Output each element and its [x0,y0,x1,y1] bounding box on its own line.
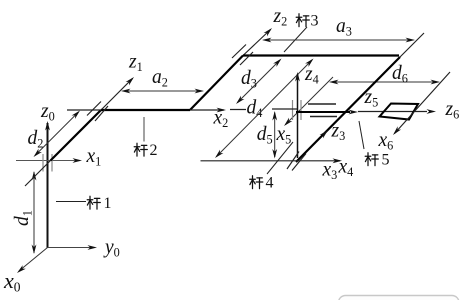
axis x0 [19,247,48,271]
axis z0 (base vertical column with up arrow) [46,123,48,248]
label gan4 (rod 4) [250,175,274,192]
axis x2 with arrow [190,109,224,111]
label gan5 (rod 5) [365,152,389,169]
leader line rod2 [143,117,145,142]
axis x1 [16,159,80,161]
tick mark pair at wrist joint [292,100,294,120]
dimension a3 (horizontal double arrow) [264,39,414,41]
leader line rod5 [359,121,364,149]
dimension d3 (diagonal double arrow) [238,60,281,103]
svg-text:4: 4 [265,175,273,192]
label gan1 (rod 1) [87,195,111,212]
link rod2 diagonal thick segment [50,110,101,161]
dimension d5 (vertical double arrow) [274,113,276,158]
gripper parallelogram [380,104,419,120]
wrist horizontal thin segment [272,108,298,110]
label gan2 (rod 2) [134,142,157,159]
dimension d4 diagonal line (double arrow) [216,60,312,157]
rounded panel edge bottom right [338,296,459,300]
dimension a2 (horizontal double arrow) [123,90,203,92]
leader line rod1 [56,200,86,202]
tick mark pair on x1 at joint 1 [42,154,44,172]
axis z2 thin extension with arrow [243,30,271,56]
leader line rod3 [284,27,307,52]
link rod2 horizontal thick part [101,109,190,111]
dimension d1 (vertical double arrow) [33,172,35,253]
second slash tick on link2 [95,106,108,121]
label gan3 (rod 3) [296,13,318,30]
link rod3 horizontal thick line [243,54,399,56]
link rod2 lower thin diagonal extension below x1 [25,160,51,186]
axis x2 short continuation [230,108,246,110]
svg-text:1: 1 [103,195,111,212]
dimension d6 (horizontal double arrow) [331,81,439,83]
dimension d2 (diagonal double arrow) [35,112,79,156]
link rod2 horizontal thin part [67,109,101,111]
dimension line wrist axis (diagonal with bottom arrow) [286,77,334,125]
axis x3 x4 with arrow [200,160,340,162]
parallel mark lower dash [310,116,337,118]
svg-text:5: 5 [381,152,389,169]
axis z4 vertical with arrow [296,74,298,158]
axis y0 [47,246,95,248]
parallel mark upper dash [308,103,336,105]
leader line rod4 [267,142,293,174]
axis z5 thick segment with arrow [296,111,350,113]
axis z1 thin extension with arrow [101,78,133,110]
slash ticks at joint4 area [287,152,299,170]
double slash ticks on link3 left end [232,45,246,59]
svg-text:2: 2 [149,142,157,159]
svg-text:3: 3 [311,13,319,30]
link wrist long diagonal thin upper part [400,33,424,57]
axis x6 diagonal with arrow [395,72,451,134]
link rod3 elbow diagonal thick segment [190,55,243,110]
axis z3 arrowhead on diagonal [320,130,328,138]
link wrist long diagonal thick / axis z3 [296,57,400,162]
slash tick on link2 [87,101,101,115]
axis z6 line with arrow [358,111,427,113]
